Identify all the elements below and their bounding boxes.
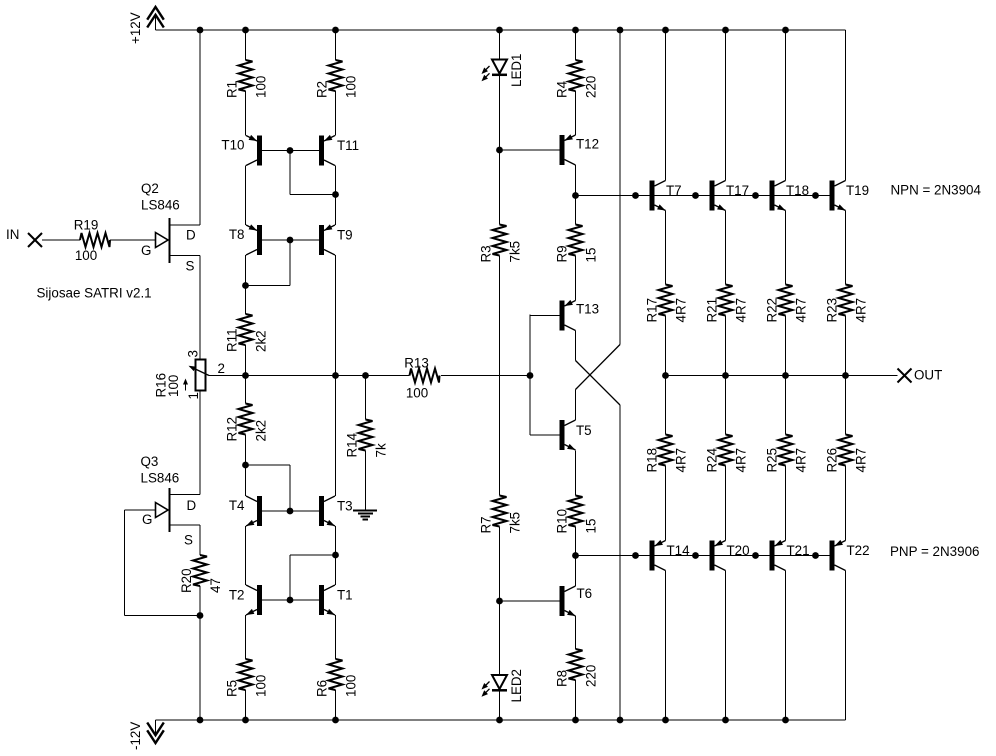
OUT terminal <box>898 368 943 383</box>
svg-text:-12V: -12V <box>128 722 143 750</box>
wire <box>725 30 727 181</box>
svg-text:R17: R17 <box>645 298 660 323</box>
transistor T3 <box>319 496 353 526</box>
transistor T18 <box>770 181 810 211</box>
wire <box>575 196 577 225</box>
transistor T8 <box>229 224 262 255</box>
wire <box>785 316 787 376</box>
svg-text:4R7: 4R7 <box>794 298 809 323</box>
svg-text:R12: R12 <box>225 417 240 442</box>
junction on -12V rail <box>242 717 249 724</box>
svg-text:LED2: LED2 <box>509 669 524 703</box>
wire <box>575 331 577 361</box>
wire <box>785 376 787 435</box>
junction on signal/output line <box>332 372 339 379</box>
wire <box>246 464 291 466</box>
svg-text:T1: T1 <box>337 588 353 603</box>
wire <box>245 615 247 659</box>
junction on PNP base rail <box>572 552 579 559</box>
JFET Q2 LS846 <box>141 181 200 274</box>
wire <box>845 30 847 181</box>
junction on -12V rail <box>617 717 624 724</box>
svg-text:PNP = 2N3906: PNP = 2N3906 <box>890 544 979 559</box>
wire <box>199 256 201 360</box>
wire crossing diagonal from +12V to T5 collector <box>576 345 621 390</box>
junction on +12V rail <box>332 27 339 34</box>
wire <box>575 527 577 556</box>
wire <box>290 554 336 556</box>
wire <box>499 30 501 60</box>
wire <box>335 615 337 659</box>
svg-text:100: 100 <box>254 76 269 98</box>
svg-text:T22: T22 <box>847 543 870 558</box>
wire <box>245 255 247 314</box>
wire <box>199 391 201 495</box>
junction on -12V rail <box>496 717 503 724</box>
svg-text:D: D <box>187 498 197 513</box>
wire <box>335 690 337 720</box>
wire <box>619 30 621 345</box>
wire <box>335 526 337 585</box>
wire <box>499 527 501 676</box>
transistor T22 <box>830 540 870 571</box>
svg-text:47: 47 <box>208 578 223 593</box>
svg-text:100: 100 <box>344 76 359 98</box>
wire <box>785 571 787 721</box>
transistor T1 <box>319 585 353 615</box>
wire <box>289 240 291 286</box>
wire <box>665 466 667 541</box>
resistor R3 <box>479 225 523 263</box>
svg-text:R3: R3 <box>479 245 494 262</box>
wire <box>575 256 577 301</box>
svg-text:S: S <box>184 533 193 548</box>
svg-text:100: 100 <box>166 375 181 397</box>
svg-text:T13: T13 <box>576 302 599 317</box>
wire <box>575 390 577 421</box>
svg-text:R19: R19 <box>74 218 99 233</box>
wire <box>246 285 291 287</box>
svg-text:4R7: 4R7 <box>674 448 689 473</box>
wire <box>576 555 830 557</box>
svg-text:4R7: 4R7 <box>734 448 749 473</box>
transistor T17 <box>710 181 750 211</box>
wire <box>499 256 501 496</box>
junction on signal/output line <box>842 372 849 379</box>
junction on -12V rail <box>662 717 669 724</box>
resistor R9 <box>555 225 599 263</box>
svg-text:2k2: 2k2 <box>254 420 269 442</box>
svg-text:R9: R9 <box>555 245 570 262</box>
transistor T20 <box>710 540 750 571</box>
svg-text:R14: R14 <box>345 432 360 457</box>
wire <box>725 316 727 376</box>
junction on NPN base rail <box>752 192 759 199</box>
svg-text:R8: R8 <box>555 670 570 687</box>
junction on signal/output line <box>722 372 729 379</box>
svg-text:R6: R6 <box>315 680 330 697</box>
junction on PNP base rail <box>752 552 759 559</box>
svg-text:R7: R7 <box>479 516 494 533</box>
wire <box>575 91 577 135</box>
svg-text:R13: R13 <box>404 356 429 371</box>
wire <box>335 91 337 136</box>
wire <box>619 405 621 720</box>
wire <box>245 30 247 60</box>
transistor T12 <box>560 134 600 165</box>
wire <box>262 239 319 241</box>
wire -12V bottom rail <box>156 719 846 721</box>
wire <box>725 376 727 435</box>
svg-text:R22: R22 <box>765 298 780 323</box>
svg-text:R18: R18 <box>645 448 660 473</box>
junction on PNP base rail <box>812 552 819 559</box>
svg-text:T19: T19 <box>846 183 869 198</box>
svg-text:2: 2 <box>218 361 225 376</box>
junction on signal/output line <box>662 372 669 379</box>
wire <box>125 615 201 617</box>
wire <box>42 239 80 241</box>
junction on PNP base rail <box>632 552 639 559</box>
svg-text:Sijosae SATRI v2.1: Sijosae SATRI v2.1 <box>37 286 152 301</box>
wire <box>245 526 247 585</box>
junction on signal/output line <box>242 372 249 379</box>
resistor R2 <box>315 60 359 98</box>
svg-text:G: G <box>141 243 151 258</box>
junction <box>287 147 294 154</box>
svg-text:T12: T12 <box>576 137 599 152</box>
resistor R18 <box>645 435 689 473</box>
wire <box>499 76 501 225</box>
wire <box>289 151 291 195</box>
ground <box>353 511 377 520</box>
transistor T6 <box>560 586 593 616</box>
junction on +12V rail <box>662 27 669 34</box>
wire <box>262 510 319 512</box>
transistor T7 <box>650 181 682 211</box>
resistor R12 <box>225 404 269 442</box>
potentiometer R16 <box>154 350 225 399</box>
junction on +12V rail <box>617 27 624 34</box>
wire <box>500 600 560 602</box>
wire <box>124 510 126 616</box>
wire <box>575 556 577 587</box>
junction <box>332 191 339 198</box>
transistor T19 <box>830 181 870 211</box>
svg-text:NPN = 2N3904: NPN = 2N3904 <box>891 183 982 198</box>
+12V power symbol <box>128 7 164 44</box>
IN terminal <box>6 227 42 247</box>
junction on +12V rail <box>242 27 249 34</box>
resistor R25 <box>765 435 809 473</box>
svg-text:T8: T8 <box>229 227 245 242</box>
svg-text:R26: R26 <box>825 448 840 473</box>
transistor T14 <box>650 540 691 571</box>
wire <box>530 315 560 317</box>
wire <box>845 211 847 285</box>
junction <box>287 597 294 604</box>
transistor T21 <box>770 540 810 571</box>
svg-text:IN: IN <box>6 227 19 242</box>
wire <box>575 451 577 496</box>
svg-text:T9: T9 <box>337 228 353 243</box>
wire <box>335 255 337 496</box>
junction on +12V rail <box>197 27 204 34</box>
wire <box>110 239 156 241</box>
resistor R26 <box>825 435 869 473</box>
junction on signal/output line <box>527 372 534 379</box>
wire <box>500 149 560 151</box>
svg-text:Q3: Q3 <box>141 454 159 469</box>
wire <box>199 525 201 555</box>
svg-text:100: 100 <box>75 248 97 263</box>
svg-text:T5: T5 <box>576 423 592 438</box>
junction <box>287 508 294 515</box>
wire <box>245 435 247 497</box>
svg-text:1: 1 <box>186 392 201 399</box>
svg-text:4R7: 4R7 <box>854 448 869 473</box>
resistor R21 <box>705 285 749 323</box>
junction <box>242 282 249 289</box>
svg-text:LS846: LS846 <box>141 198 180 213</box>
LED LED1 <box>482 54 525 88</box>
svg-text:LED1: LED1 <box>509 54 524 88</box>
LED LED2 <box>482 669 525 703</box>
resistor R14 <box>345 420 389 458</box>
transistor T10 <box>221 135 262 166</box>
svg-text:7k: 7k <box>374 443 389 457</box>
junction <box>242 462 249 469</box>
wire <box>665 571 667 721</box>
resistor R13 <box>404 356 439 401</box>
resistor R20 <box>179 555 223 593</box>
JFET Q3 LS846 <box>141 454 201 548</box>
svg-text:T6: T6 <box>577 586 593 601</box>
svg-text:15: 15 <box>584 248 599 263</box>
junction on signal/output line <box>362 372 369 379</box>
wire <box>785 30 787 181</box>
transistor T4 <box>229 496 262 526</box>
svg-text:T4: T4 <box>229 498 245 513</box>
svg-text:220: 220 <box>584 665 599 687</box>
junction on +12V rail <box>496 27 503 34</box>
svg-text:2k2: 2k2 <box>254 330 269 352</box>
wire <box>785 466 787 541</box>
wire <box>575 165 577 196</box>
junction <box>496 598 503 605</box>
resistor R5 <box>225 659 269 697</box>
wire <box>335 30 337 60</box>
wire <box>575 680 577 720</box>
wire <box>199 586 201 720</box>
svg-text:T2: T2 <box>229 588 245 603</box>
resistor R11 <box>225 314 269 352</box>
svg-text:OUT: OUT <box>914 368 942 383</box>
junction <box>496 147 503 154</box>
svg-text:R4: R4 <box>555 80 570 98</box>
svg-text:R5: R5 <box>225 680 240 697</box>
svg-text:R11: R11 <box>225 328 240 352</box>
wire <box>209 375 410 377</box>
svg-text:3: 3 <box>186 350 201 357</box>
svg-text:100: 100 <box>254 675 269 697</box>
wire <box>576 195 830 197</box>
junction <box>332 552 339 559</box>
svg-text:R20: R20 <box>179 568 194 593</box>
resistor R6 <box>315 659 359 697</box>
junction on -12V rail <box>782 717 789 724</box>
svg-text:T3: T3 <box>337 499 353 514</box>
junction on NPN base rail <box>812 192 819 199</box>
wire <box>335 166 337 226</box>
wire <box>530 434 560 436</box>
resistor R4 <box>555 60 599 98</box>
wire <box>245 166 247 226</box>
junction on +12V rail <box>572 27 579 34</box>
svg-text:G: G <box>142 512 152 527</box>
wire <box>665 30 667 181</box>
junction on PNP base rail <box>692 552 699 559</box>
svg-text:R25: R25 <box>765 448 780 473</box>
junction on -12V rail <box>197 717 204 724</box>
svg-text:100: 100 <box>406 386 428 401</box>
resistor R10 <box>555 496 599 534</box>
resistor R24 <box>705 435 749 473</box>
transistor T9 <box>319 224 353 255</box>
wire <box>529 315 531 436</box>
svg-text:4R7: 4R7 <box>734 298 749 323</box>
wire <box>725 466 727 541</box>
wire crossing diagonal from T13 collector to -12V <box>576 361 621 406</box>
resistor R8 <box>555 649 599 687</box>
junction on +12V rail <box>782 27 789 34</box>
wire <box>125 509 156 511</box>
wire <box>785 211 787 285</box>
wire <box>666 375 898 377</box>
wire <box>845 316 847 376</box>
svg-text:R10: R10 <box>555 509 570 534</box>
svg-text:T10: T10 <box>221 138 244 153</box>
wire <box>845 466 847 541</box>
wire <box>262 599 319 601</box>
svg-text:LS846: LS846 <box>141 471 180 486</box>
transistor T11 <box>319 135 359 166</box>
wire <box>262 150 319 152</box>
wire <box>575 616 577 649</box>
wire <box>575 30 577 60</box>
wire <box>441 375 530 377</box>
svg-text:R24: R24 <box>705 447 720 472</box>
transistor T2 <box>229 585 262 615</box>
svg-text:7k5: 7k5 <box>508 512 523 534</box>
svg-text:Q2: Q2 <box>141 181 159 196</box>
wire <box>665 316 667 376</box>
wire +12V top rail <box>156 29 846 31</box>
wire <box>289 555 291 600</box>
svg-text:D: D <box>186 228 196 243</box>
wire <box>365 376 367 420</box>
junction on signal/output line <box>782 372 789 379</box>
junction on NPN base rail <box>632 192 639 199</box>
svg-text:R1: R1 <box>225 81 240 98</box>
wire <box>725 571 727 721</box>
svg-text:4R7: 4R7 <box>794 448 809 473</box>
wire <box>290 194 336 196</box>
wire <box>245 91 247 136</box>
junction on -12V rail <box>722 717 729 724</box>
resistor R23 <box>825 285 869 323</box>
junction on +12V rail <box>722 27 729 34</box>
svg-text:100: 100 <box>344 675 359 697</box>
svg-text:15: 15 <box>584 519 599 534</box>
junction <box>287 237 294 244</box>
junction on -12V rail <box>572 717 579 724</box>
wire <box>365 451 367 510</box>
resistor R17 <box>645 285 689 323</box>
svg-text:7k5: 7k5 <box>508 241 523 263</box>
wire <box>845 376 847 435</box>
svg-text:4R7: 4R7 <box>854 298 869 323</box>
svg-text:220: 220 <box>584 76 599 98</box>
svg-text:R23: R23 <box>825 298 840 323</box>
wire <box>245 345 247 404</box>
junction <box>197 612 204 619</box>
svg-text:+12V: +12V <box>128 12 143 44</box>
wire <box>725 211 727 285</box>
junction on -12V rail <box>332 717 339 724</box>
junction on NPN base rail <box>692 192 699 199</box>
resistor R22 <box>765 285 809 323</box>
wire <box>245 690 247 720</box>
junction on NPN base rail <box>572 192 579 199</box>
svg-text:R21: R21 <box>705 298 720 323</box>
wire <box>665 211 667 285</box>
svg-text:T11: T11 <box>337 138 359 153</box>
wire <box>499 691 501 721</box>
resistor R7 <box>479 496 523 534</box>
svg-text:4R7: 4R7 <box>674 298 689 323</box>
wire <box>665 376 667 435</box>
-12V power symbol <box>128 720 164 750</box>
wire <box>845 571 847 721</box>
transistor T5 <box>560 420 592 450</box>
wire <box>289 465 291 511</box>
wire <box>199 30 201 225</box>
resistor R19 <box>74 218 110 264</box>
transistor T13 <box>560 300 600 331</box>
svg-text:S: S <box>186 259 195 274</box>
svg-text:R2: R2 <box>315 81 330 98</box>
resistor R1 <box>225 60 269 98</box>
